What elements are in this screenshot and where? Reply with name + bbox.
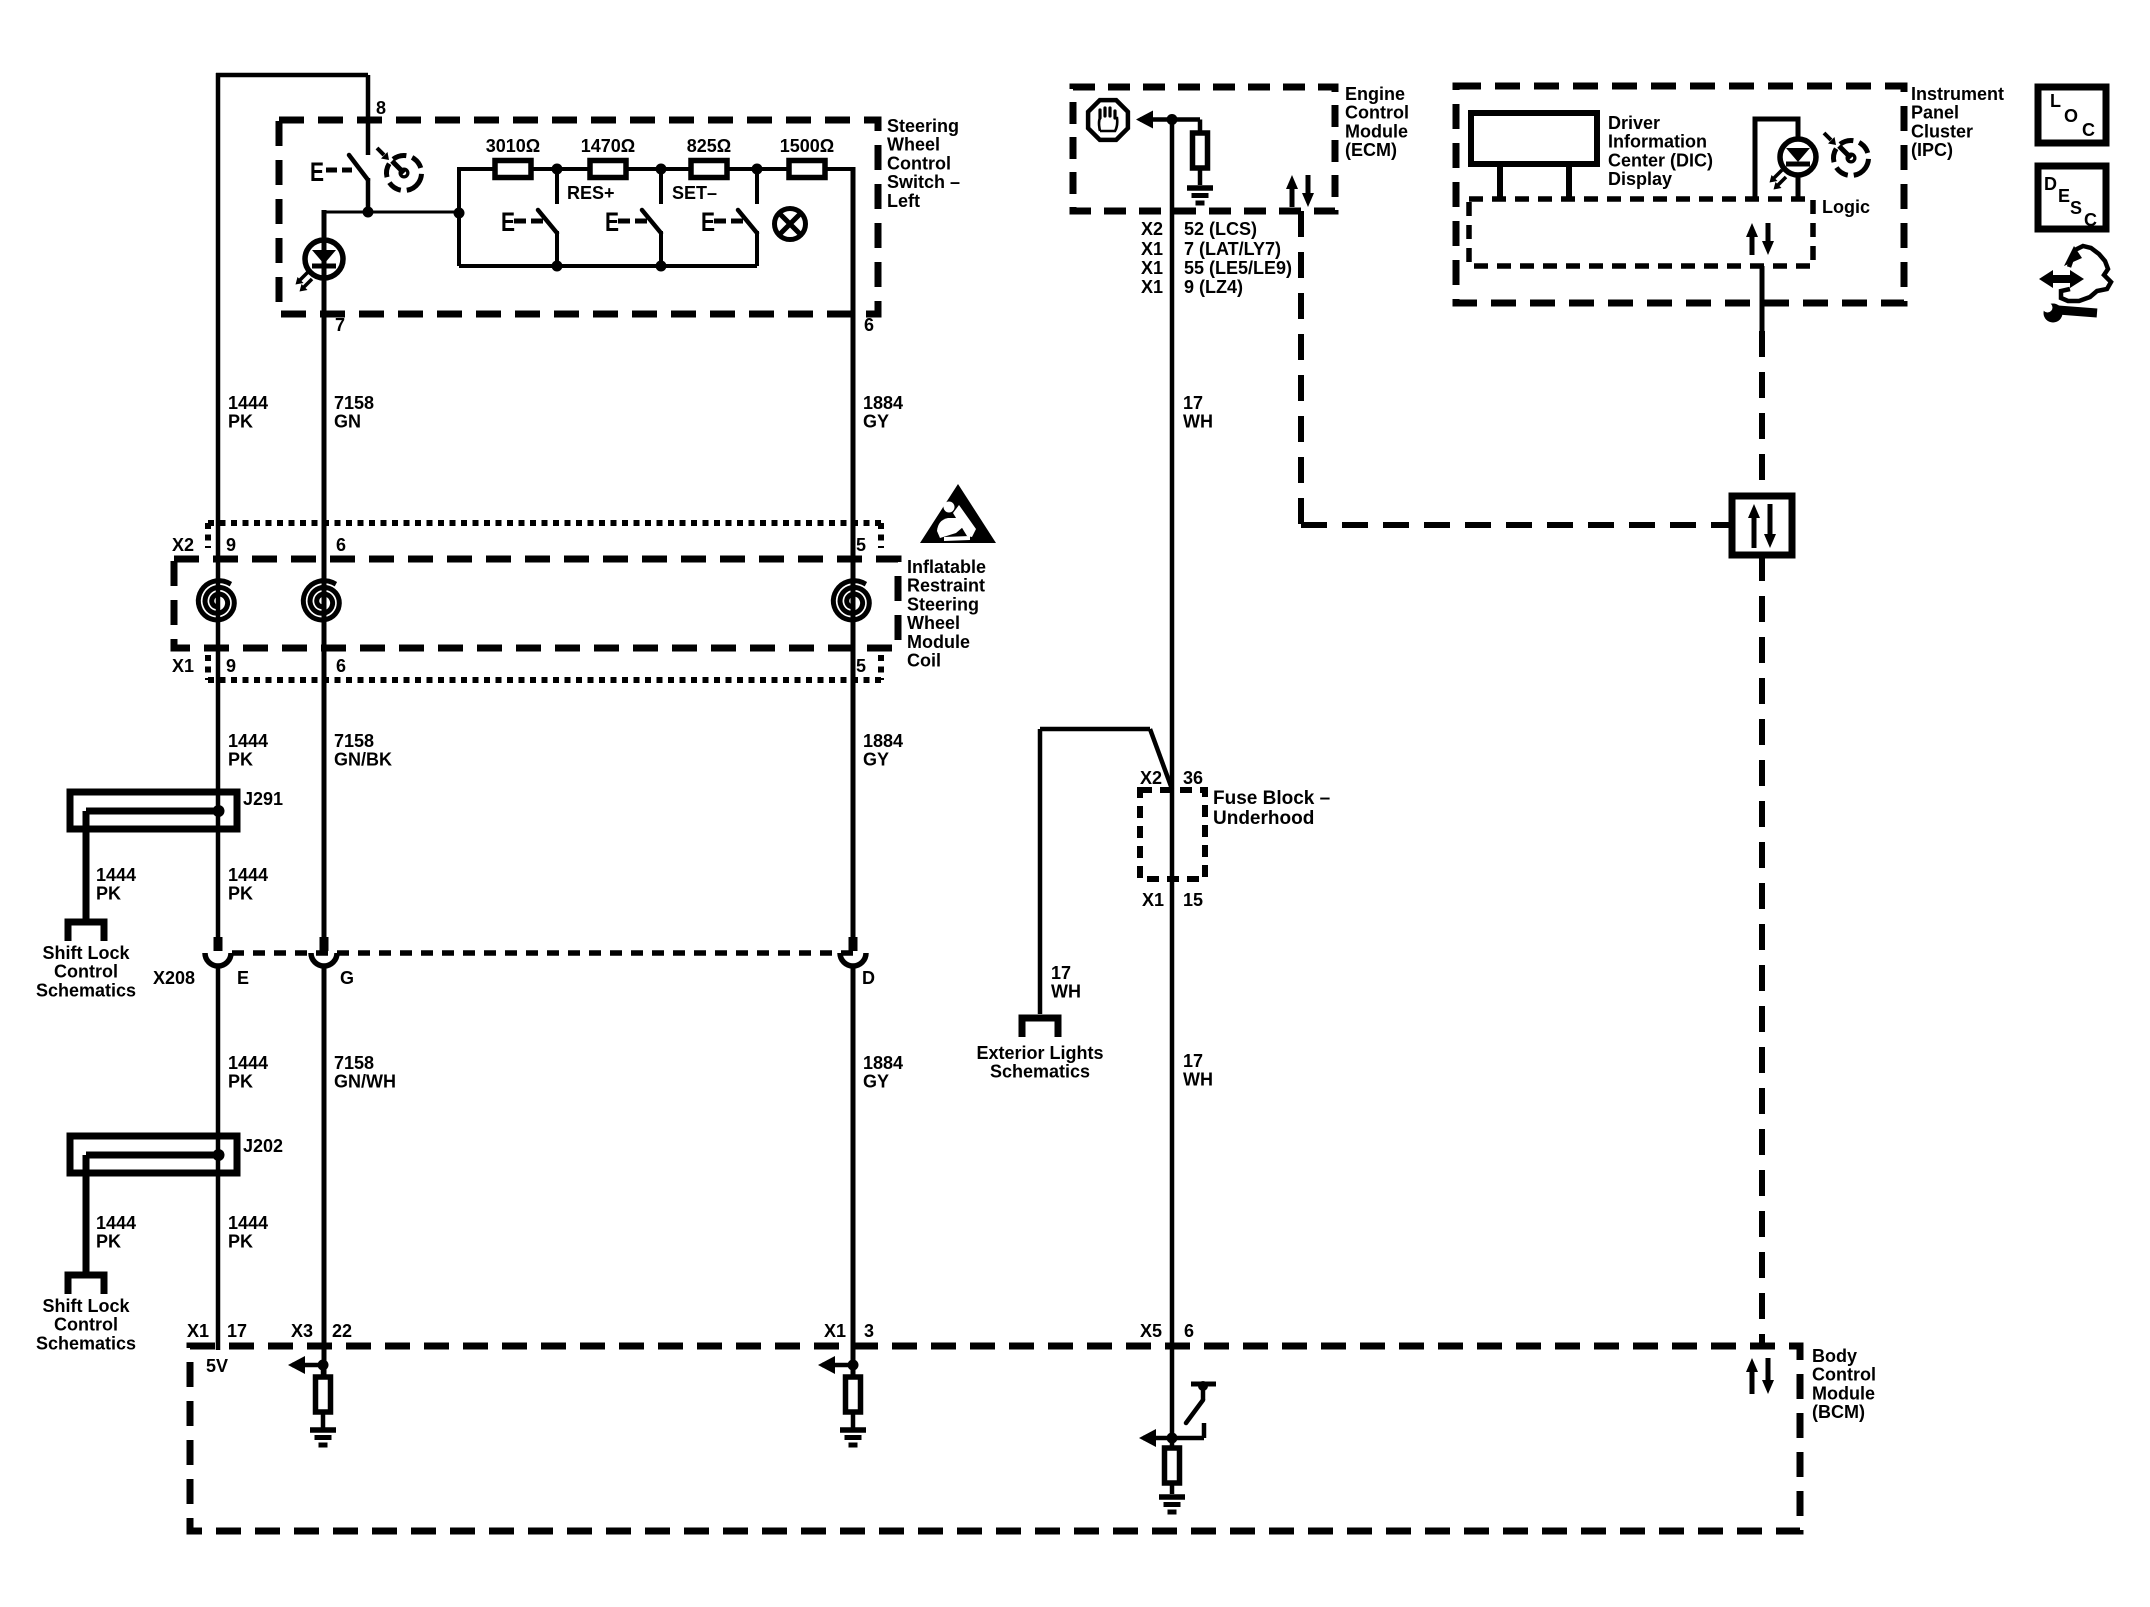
svg-text:3: 3: [864, 1321, 874, 1341]
connector X208 pin D: [849, 937, 858, 951]
splice J202: [70, 1136, 237, 1173]
svg-text:RES+: RES+: [567, 183, 615, 203]
svg-text:1884: 1884: [863, 731, 903, 751]
coil spiral 1 (1444 wire): [198, 581, 234, 620]
component box: Inflatable Restraint Steering Wheel Module Coil (dashed): [174, 559, 898, 648]
svg-text:3010Ω: 3010Ω: [486, 136, 540, 156]
wire network bottom rail: [459, 264, 757, 268]
switch S4 SET-: [755, 169, 759, 204]
svg-text:Fuse Block –: Fuse Block –: [1213, 788, 1330, 809]
svg-text:X208: X208: [153, 968, 195, 988]
svg-text:E: E: [2058, 186, 2070, 206]
svg-text:9 (LZ4): 9 (LZ4): [1184, 277, 1243, 297]
svg-text:15: 15: [1183, 890, 1203, 910]
svg-text:Steering: Steering: [887, 116, 959, 136]
svg-text:WH: WH: [1183, 1070, 1213, 1090]
node top rail junction B: [656, 164, 667, 175]
svg-text:C: C: [2082, 120, 2095, 140]
svg-text:PK: PK: [96, 1232, 121, 1252]
svg-text:1470Ω: 1470Ω: [581, 136, 635, 156]
svg-text:X5: X5: [1140, 1321, 1162, 1341]
svg-text:9: 9: [226, 656, 236, 676]
resistor R1 3010 ohm: [495, 161, 531, 178]
svg-text:GY: GY: [863, 1072, 889, 1092]
svg-text:J291: J291: [243, 789, 283, 809]
svg-text:PK: PK: [228, 884, 253, 904]
switch internal (X5 6): [1191, 1382, 1216, 1387]
serial data link IPC (dashed wire upper): [1759, 331, 1765, 496]
DIC display box: [1471, 113, 1597, 164]
svg-text:Shift Lock: Shift Lock: [42, 943, 130, 963]
svg-text:8: 8: [376, 98, 386, 118]
svg-text:Exterior Lights: Exterior Lights: [976, 1043, 1103, 1063]
svg-text:Schematics: Schematics: [36, 980, 136, 1000]
node junction ECM: [1167, 114, 1178, 125]
LED D1 (illumination): [305, 240, 343, 278]
svg-text:5V: 5V: [206, 1356, 228, 1376]
DIC display legs: [1497, 164, 1503, 199]
resistor internal (X5 6): [1170, 1438, 1175, 1448]
svg-text:D: D: [862, 968, 875, 988]
serial data junction box: [1732, 496, 1792, 555]
component box: Engine Control Module ECM (dashed): [1073, 87, 1335, 211]
svg-text:36: 36: [1183, 768, 1203, 788]
svg-text:7158: 7158: [334, 731, 374, 751]
svg-text:(IPC): (IPC): [1911, 140, 1953, 160]
wire network top rail: [459, 167, 854, 171]
svg-text:PK: PK: [228, 1232, 253, 1252]
svg-text:Control: Control: [54, 1315, 118, 1335]
svg-text:7: 7: [335, 315, 345, 335]
svg-text:Information: Information: [1608, 132, 1707, 152]
svg-text:1884: 1884: [863, 393, 903, 413]
svg-text:S: S: [2070, 198, 2082, 218]
serial data arrows (BCM): [1750, 1370, 1755, 1394]
connector X208 pin E: [214, 937, 223, 951]
service icon (double arrow part wrench): [2051, 275, 2072, 283]
coil spiral 2 (7158 wire): [303, 581, 339, 620]
wire logic branch: [1755, 119, 1798, 199]
wire 17 WH (circuit 17 WH): [1170, 120, 1175, 1439]
svg-text:1444: 1444: [96, 865, 136, 885]
gauge icon (cruise speedometer): [380, 149, 429, 198]
wire network left rail: [457, 167, 461, 266]
resistor R3 825 ohm: [691, 161, 727, 178]
wire network right rail to pin 6: [825, 167, 854, 171]
svg-text:Wheel: Wheel: [887, 135, 940, 155]
wire from junction to LED branch (thin): [324, 211, 461, 214]
svg-text:GN/WH: GN/WH: [334, 1072, 396, 1092]
svg-text:X1: X1: [187, 1321, 209, 1341]
wire logic to data link: [1760, 266, 1765, 331]
svg-text:Inflatable: Inflatable: [907, 557, 986, 577]
svg-text:1444: 1444: [228, 393, 268, 413]
svg-text:17: 17: [1183, 393, 1203, 413]
svg-text:GY: GY: [863, 750, 889, 770]
svg-text:PK: PK: [228, 750, 253, 770]
serial data link to BCM (dashed wire lower): [1759, 555, 1765, 1346]
svg-text:9: 9: [226, 535, 236, 555]
svg-text:E: E: [501, 207, 515, 237]
node bottom rail junction B: [656, 261, 667, 272]
resistor internal (X3 22): [321, 1365, 326, 1377]
svg-text:1444: 1444: [228, 865, 268, 885]
signal arrow (X5 6): [1143, 1436, 1204, 1441]
warning triangle (SIR caution icon): [920, 484, 996, 543]
svg-text:X1: X1: [1141, 258, 1163, 278]
serial data arrows (ECM): [1290, 187, 1295, 207]
svg-text:17: 17: [1051, 963, 1071, 983]
svg-text:PK: PK: [228, 1072, 253, 1092]
svg-text:PK: PK: [96, 884, 121, 904]
svg-text:Restraint: Restraint: [907, 576, 985, 596]
svg-text:GN/BK: GN/BK: [334, 750, 392, 770]
svg-text:E: E: [701, 207, 715, 237]
connector X208 dashed link line: [232, 950, 853, 956]
svg-text:17: 17: [227, 1321, 247, 1341]
svg-text:22: 22: [332, 1321, 352, 1341]
wire LED branch vertical / 7158 wire upper: [322, 210, 327, 937]
svg-text:Instrument: Instrument: [1911, 84, 2004, 104]
svg-text:7158: 7158: [334, 393, 374, 413]
wire 1444 PK vertical (circuit 1444 PK): [216, 73, 221, 937]
svg-text:Module: Module: [907, 632, 970, 652]
svg-text:Control: Control: [54, 962, 118, 982]
svg-text:7 (LAT/LY7): 7 (LAT/LY7): [1184, 239, 1281, 259]
svg-text:Logic: Logic: [1822, 197, 1870, 217]
svg-text:PK: PK: [228, 412, 253, 432]
svg-text:1444: 1444: [228, 731, 268, 751]
svg-text:Control: Control: [1345, 103, 1409, 123]
svg-text:Wheel: Wheel: [907, 613, 960, 633]
svg-text:1444: 1444: [228, 1053, 268, 1073]
svg-text:X2: X2: [1141, 219, 1163, 239]
svg-text:C: C: [2084, 210, 2097, 230]
svg-text:X2: X2: [1140, 768, 1162, 788]
resistor R2 1470 ohm: [590, 161, 626, 178]
svg-text:X1: X1: [824, 1321, 846, 1341]
connector X208 pin G: [320, 937, 329, 951]
svg-text:5: 5: [856, 535, 866, 555]
svg-text:Steering: Steering: [907, 594, 979, 614]
LED indicator (IPC): [1780, 139, 1816, 175]
svg-text:E: E: [237, 968, 249, 988]
svg-text:X2: X2: [172, 535, 194, 555]
svg-text:Center (DIC): Center (DIC): [1608, 150, 1713, 170]
off-page bracket (exterior lights): [1022, 1018, 1058, 1037]
wire 1444 PK lower: [216, 966, 221, 1350]
wire branch to exterior lights: [1040, 727, 1150, 732]
switch S3 RES+: [659, 169, 663, 204]
node junction X1 3: [848, 1360, 859, 1371]
svg-text:Shift Lock: Shift Lock: [42, 1296, 130, 1316]
svg-text:D: D: [2044, 174, 2057, 194]
resistor R4 1500 ohm: [789, 161, 825, 178]
ground (X5 6): [1170, 1483, 1175, 1494]
wire branch from J291: [83, 811, 90, 919]
svg-text:L: L: [2050, 91, 2061, 111]
wire pin 8 drop: [366, 75, 371, 155]
switch S1 blade: [349, 155, 368, 180]
svg-text:X1: X1: [172, 656, 194, 676]
node junction X5 6: [1167, 1433, 1178, 1444]
ground (ECM): [1198, 168, 1203, 185]
svg-text:Left: Left: [887, 191, 920, 211]
connector X2 dotted line (coil upper): [208, 520, 883, 526]
svg-text:GN: GN: [334, 412, 361, 432]
wire 1444 PK top horizontal: [216, 73, 368, 78]
coil spiral 3 (1884 wire): [833, 581, 869, 620]
svg-text:52 (LCS): 52 (LCS): [1184, 219, 1257, 239]
svg-text:X1: X1: [1141, 239, 1163, 259]
svg-text:X1: X1: [1141, 277, 1163, 297]
component box: Instrument Panel Cluster IPC (dashed): [1456, 86, 1904, 303]
stop icon (octagon hand): [1088, 100, 1128, 140]
logic box (dashed): [1469, 199, 1813, 266]
svg-text:Panel: Panel: [1911, 103, 1959, 123]
node: junction S1/LED/network: [363, 207, 374, 218]
svg-text:55 (LE5/LE9): 55 (LE5/LE9): [1184, 258, 1292, 278]
ground (X1 3): [851, 1412, 856, 1428]
node bottom rail junction A: [552, 261, 563, 272]
svg-text:(BCM): (BCM): [1812, 1402, 1865, 1422]
connector X1 dotted line (coil lower): [208, 677, 883, 683]
wire branch from J202: [83, 1155, 90, 1272]
svg-text:1444: 1444: [96, 1213, 136, 1233]
splice J291: [70, 792, 237, 829]
svg-text:Cluster: Cluster: [1911, 121, 1973, 141]
svg-text:Control: Control: [1812, 1365, 1876, 1385]
serial data arrows (IPC logic): [1750, 235, 1755, 255]
wire 7158 GN/WH lower: [322, 966, 327, 1378]
svg-text:Schematics: Schematics: [36, 1333, 136, 1353]
component box: Steering Wheel Control Switch - Left (dashed): [279, 120, 878, 314]
off-page bracket (J202 branch): [68, 1275, 104, 1294]
svg-text:Coil: Coil: [907, 651, 941, 671]
off-page bracket (J291 branch): [68, 922, 104, 941]
wire 1884 GY lower: [851, 966, 856, 1378]
node top rail junction C: [752, 164, 763, 175]
svg-text:Body: Body: [1812, 1346, 1857, 1366]
svg-text:SET–: SET–: [672, 183, 717, 203]
svg-text:6: 6: [864, 315, 874, 335]
svg-text:X1: X1: [1142, 890, 1164, 910]
svg-text:X3: X3: [291, 1321, 313, 1341]
svg-text:6: 6: [336, 535, 346, 555]
component box: Body Control Module BCM (dashed): [190, 1346, 1800, 1531]
svg-text:1884: 1884: [863, 1053, 903, 1073]
svg-text:Engine: Engine: [1345, 84, 1405, 104]
svg-text:Control: Control: [887, 153, 951, 173]
svg-text:Driver: Driver: [1608, 113, 1660, 133]
svg-text:1500Ω: 1500Ω: [780, 136, 834, 156]
svg-text:WH: WH: [1183, 412, 1213, 432]
svg-text:6: 6: [1184, 1321, 1194, 1341]
svg-text:7158: 7158: [334, 1053, 374, 1073]
svg-text:E: E: [310, 157, 324, 187]
resistor internal (X1 3): [851, 1365, 856, 1377]
DESC reference box: [2038, 166, 2106, 229]
signal arrow (X3 22): [292, 1363, 323, 1368]
svg-text:825Ω: 825Ω: [687, 136, 731, 156]
svg-text:(ECM): (ECM): [1345, 140, 1397, 160]
LOC reference box: [2038, 87, 2106, 143]
node junction X3 22: [318, 1360, 329, 1371]
svg-text:Switch –: Switch –: [887, 172, 960, 192]
svg-text:O: O: [2064, 106, 2078, 126]
gauge icon (IPC speedometer): [1827, 134, 1876, 183]
signal arrow (ECM): [1140, 117, 1172, 122]
svg-text:Schematics: Schematics: [990, 1062, 1090, 1082]
ground (X3 22): [321, 1412, 326, 1428]
serial data arrows (junction box): [1752, 516, 1757, 548]
component box: Fuse Block - Underhood (dashed): [1140, 790, 1205, 879]
signal arrow (X1 3): [822, 1363, 853, 1368]
svg-text:E: E: [605, 207, 619, 237]
svg-text:17: 17: [1183, 1051, 1203, 1071]
svg-text:Display: Display: [1608, 169, 1672, 189]
switch S2 (resistive ladder sw1): [555, 169, 559, 204]
svg-text:5: 5: [856, 656, 866, 676]
svg-text:Underhood: Underhood: [1213, 808, 1314, 829]
svg-text:Module: Module: [1812, 1383, 1875, 1403]
svg-text:WH: WH: [1051, 982, 1081, 1002]
resistor internal (ECM): [1172, 117, 1200, 122]
serial data link ECM (dashed wire): [1298, 211, 1304, 525]
switch S1 dashes: [326, 168, 337, 173]
node network input junction: [454, 208, 465, 219]
node top rail junction A: [552, 164, 563, 175]
svg-text:1444: 1444: [228, 1213, 268, 1233]
switch S1 lower lead: [366, 178, 371, 212]
svg-text:6: 6: [336, 656, 346, 676]
svg-text:GY: GY: [863, 412, 889, 432]
svg-text:G: G: [340, 968, 354, 988]
lamp L1 (backlight): [775, 209, 806, 240]
svg-text:J202: J202: [243, 1136, 283, 1156]
svg-text:Module: Module: [1345, 121, 1408, 141]
